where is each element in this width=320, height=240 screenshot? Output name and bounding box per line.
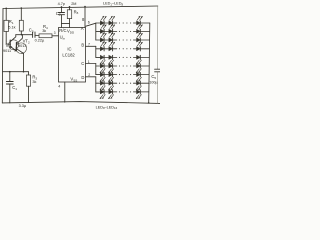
svg-text:2M: 2M <box>71 2 76 6</box>
wire pin D <box>86 76 96 78</box>
svg-text:R1: R1 <box>9 19 14 25</box>
svg-text:100µ: 100µ <box>149 80 157 84</box>
wire pin B <box>86 45 96 47</box>
svg-text:0.22µ: 0.22µ <box>35 38 45 42</box>
svg-text:3.3µ: 3.3µ <box>19 104 27 108</box>
resistor R4 3k <box>39 34 52 38</box>
svg-text:9011: 9011 <box>3 49 11 53</box>
wire emitter node line <box>3 71 29 73</box>
svg-text:LC182: LC182 <box>62 52 75 57</box>
wire bus B <box>95 46 97 57</box>
LED row 7 <box>100 73 149 82</box>
svg-text:VDD: VDD <box>67 29 75 35</box>
svg-text:D: D <box>81 75 84 80</box>
wire bottom rail <box>2 102 160 104</box>
LED row 1 <box>100 16 149 25</box>
LED row 3 <box>100 33 149 42</box>
svg-text:5.1k: 5.1k <box>8 25 15 29</box>
wire top rail <box>3 6 158 9</box>
LED row 8 <box>100 81 149 90</box>
node VT1 collector line <box>16 34 33 36</box>
svg-text:9013: 9013 <box>18 44 26 48</box>
wire VT2 emitter drop <box>23 53 25 71</box>
svg-text:B: B <box>81 42 84 47</box>
svg-text:IC: IC <box>67 47 71 52</box>
transistor VT1 <box>9 40 19 50</box>
svg-text:C2: C2 <box>56 11 61 17</box>
junction dots <box>5 6 149 104</box>
svg-text:2: 2 <box>88 73 90 77</box>
svg-text:C3: C3 <box>29 28 34 34</box>
svg-text:3k: 3k <box>32 80 36 84</box>
capacitor C3 0.22u <box>32 32 34 37</box>
LED row 9 <box>100 90 149 99</box>
wire left edge <box>1 9 4 103</box>
resistor R1 5.1k <box>5 8 7 20</box>
wire C2-R5 join <box>62 22 70 24</box>
svg-text:C5: C5 <box>151 74 156 80</box>
svg-text:4.7p: 4.7p <box>58 2 65 6</box>
svg-text:C: C <box>81 61 84 66</box>
capacitor C2 4.7p <box>61 7 63 12</box>
svg-text:3: 3 <box>54 31 56 35</box>
resistor R2 <box>20 8 22 20</box>
svg-text:A: A <box>81 26 84 31</box>
wire right cathode bus <box>149 23 150 103</box>
LED row 2 <box>100 25 149 34</box>
transistor VT2 <box>16 43 27 54</box>
svg-text:R5: R5 <box>74 9 79 15</box>
svg-text:R/C: R/C <box>59 28 66 33</box>
wire pin 8 <box>84 7 86 28</box>
capacitor C5 100u right edge <box>157 6 159 69</box>
svg-text:LED9–LED16: LED9–LED16 <box>96 105 118 110</box>
svg-text:7: 7 <box>88 43 90 47</box>
svg-text:6: 6 <box>88 21 90 25</box>
wire C3 to R4 <box>35 34 39 36</box>
resistor R3 3k <box>28 72 30 75</box>
LED row 6 <box>100 64 149 73</box>
wire IC bottom pin 4 <box>64 82 66 102</box>
LED row 5 <box>100 55 149 64</box>
LED rows group (drawn by JS-free repeated markup inserted below) <box>100 16 150 99</box>
svg-text:1: 1 <box>88 60 90 64</box>
svg-text:3k: 3k <box>42 29 46 33</box>
svg-text:4: 4 <box>58 85 60 89</box>
svg-text:C1: C1 <box>12 85 17 91</box>
resistor R5 2M <box>69 7 71 10</box>
capacitor C1 3.3u <box>9 72 11 82</box>
svg-text:Uin: Uin <box>60 35 66 41</box>
op-amp U1 IC LC182 box <box>59 28 86 83</box>
wire bus C <box>95 64 97 75</box>
wire bus D <box>95 77 97 92</box>
wire pin A <box>86 23 96 26</box>
svg-text:VSS: VSS <box>70 77 77 83</box>
LED row 4 <box>100 42 149 51</box>
wire bus A <box>95 23 97 40</box>
wire pin C <box>86 63 96 65</box>
